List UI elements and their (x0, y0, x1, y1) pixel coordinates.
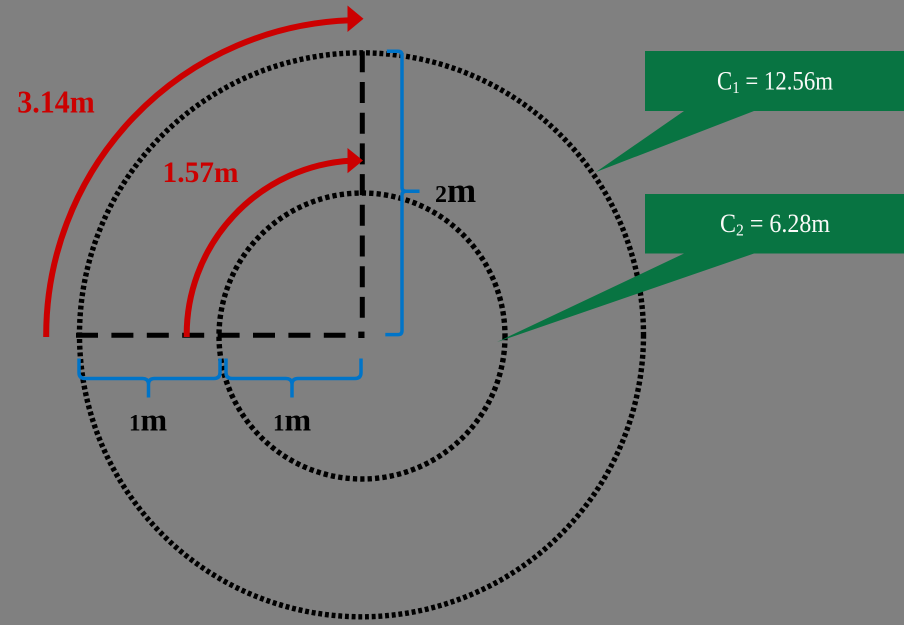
small dotted circle (radius 1m) (219, 193, 505, 479)
green callout C2 (497, 194, 904, 342)
corner dash dot at junction of radius lines (358, 332, 364, 338)
svg-text:1m: 1m (129, 402, 168, 438)
big dotted circle (radius 2m) (80, 53, 644, 617)
big red arc (3.14m) (46, 20, 350, 337)
svg-text:1m: 1m (273, 402, 312, 438)
svg-text:2m: 2m (435, 171, 476, 210)
dashed horizontal radius line (76, 333, 346, 338)
small red arc (1.57m) (187, 161, 352, 337)
big red arc arrowhead (348, 6, 364, 33)
svg-text:3.14m: 3.14m (17, 84, 95, 120)
blue underbrace right (1m) (226, 359, 361, 398)
blue vertical brace (2m) (385, 51, 419, 334)
small red arc arrowhead (348, 148, 364, 173)
green callout C1 (596, 51, 904, 172)
blue underbrace left (1m) (79, 359, 220, 398)
svg-text:1.57m: 1.57m (163, 156, 239, 189)
dashed vertical radius line (360, 51, 365, 317)
